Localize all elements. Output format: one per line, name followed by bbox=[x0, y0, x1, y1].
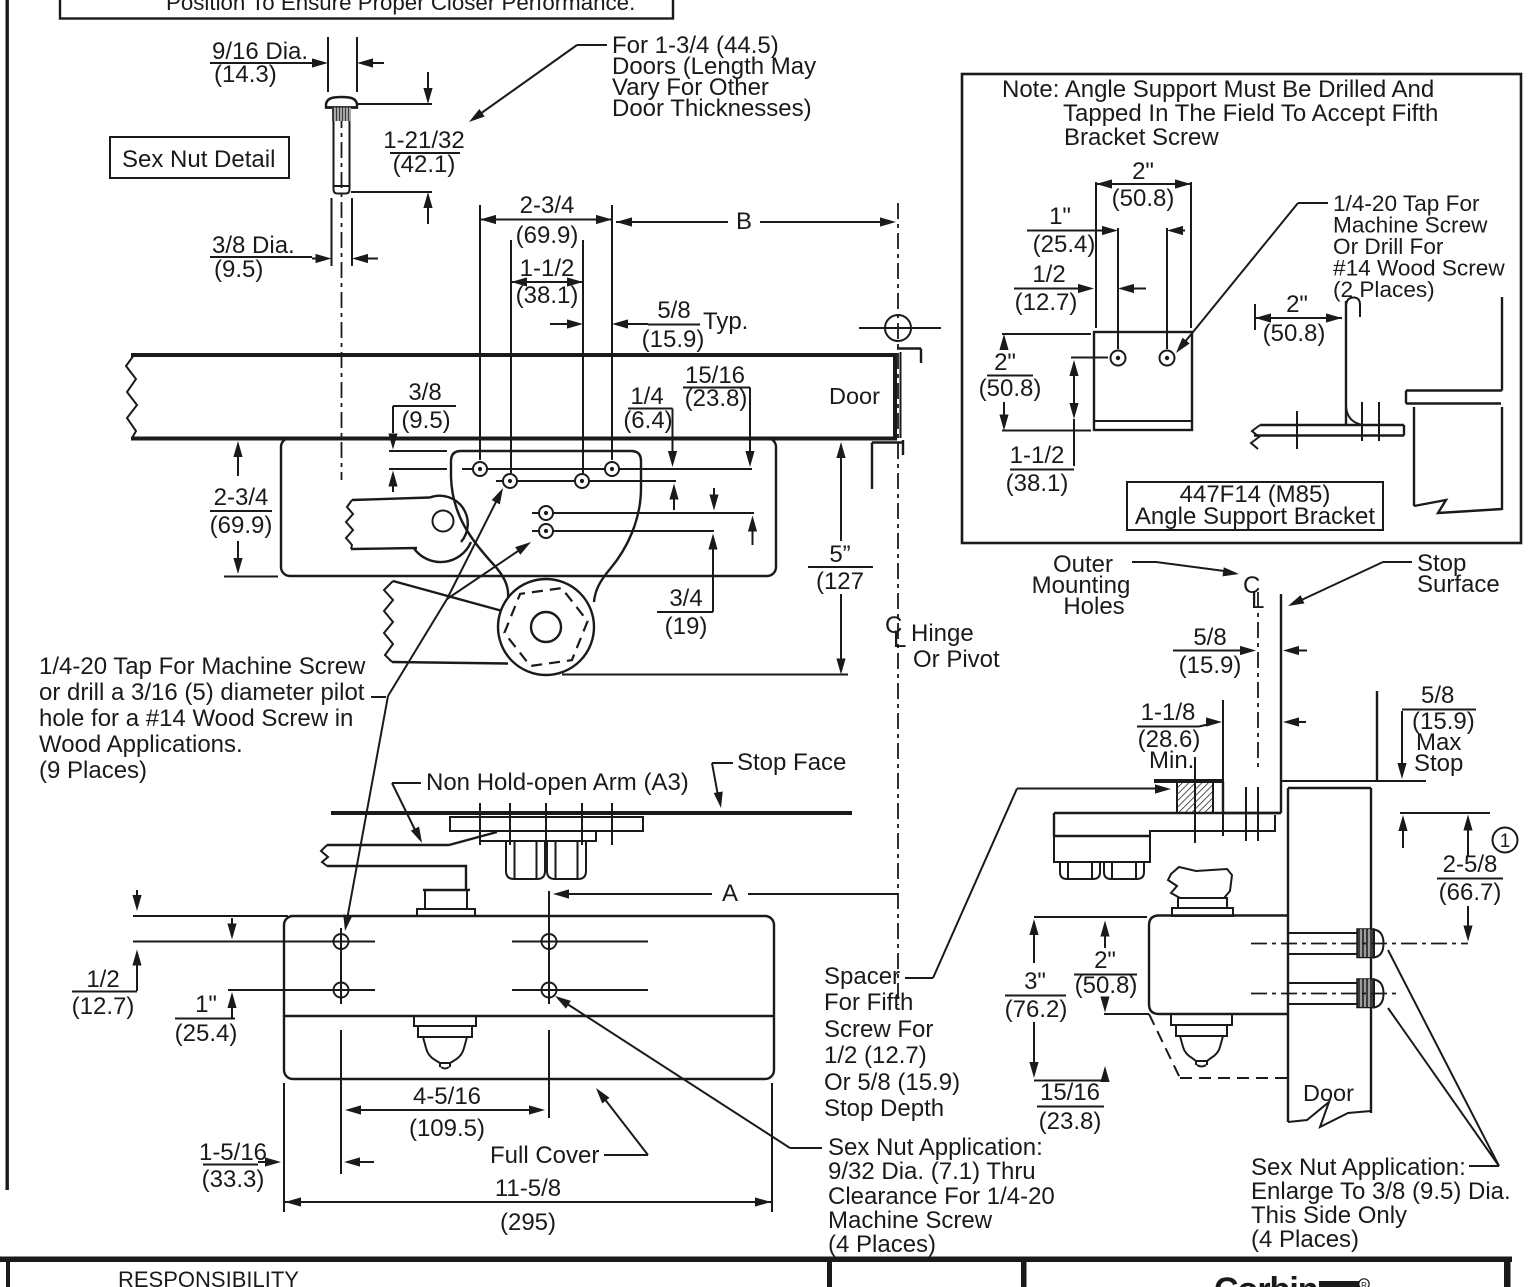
svg-text:L: L bbox=[1251, 587, 1264, 614]
svg-text:1/2: 1/2 bbox=[1032, 261, 1065, 288]
svg-text:2-3/4: 2-3/4 bbox=[520, 192, 575, 219]
svg-text:(42.1): (42.1) bbox=[393, 151, 456, 178]
svg-text:(12.7): (12.7) bbox=[1015, 289, 1078, 316]
hinge centerline bbox=[897, 203, 899, 1005]
svg-text:1-5/16: 1-5/16 bbox=[199, 1139, 267, 1166]
svg-text:hole for a #14 Wood Screw in: hole for a #14 Wood Screw in bbox=[39, 705, 353, 732]
callout 1/4-20 tap (2 places) bbox=[1172, 191, 1505, 356]
svg-text:(127: (127 bbox=[816, 568, 864, 595]
svg-text:(50.8): (50.8) bbox=[1263, 320, 1326, 347]
svg-text:1/2 (12.7): 1/2 (12.7) bbox=[824, 1042, 927, 1069]
sex nut centerline bbox=[341, 112, 343, 480]
dim 1/2 bbox=[1014, 261, 1146, 316]
svg-text:Spacer: Spacer bbox=[824, 963, 900, 990]
closer body (side) bbox=[1149, 916, 1288, 1015]
svg-text:3/4: 3/4 bbox=[669, 585, 702, 612]
stop surface label bbox=[1286, 550, 1500, 610]
svg-text:1-1/2: 1-1/2 bbox=[520, 255, 575, 282]
svg-text:Hinge: Hinge bbox=[911, 620, 974, 647]
svg-text:(23.8): (23.8) bbox=[685, 385, 748, 412]
dim 2 inch left vertical bbox=[979, 334, 1091, 431]
frame soffit right of stop bbox=[1281, 780, 1426, 782]
fifth screw tick marks bbox=[1245, 787, 1247, 841]
svg-text:(15.9): (15.9) bbox=[642, 326, 705, 353]
svg-text:Door Thicknesses): Door Thicknesses) bbox=[612, 95, 812, 122]
svg-text:(69.9): (69.9) bbox=[516, 222, 579, 249]
sex nut tip bbox=[334, 186, 350, 194]
hub hex (dashed) bbox=[504, 588, 587, 666]
svg-text:1": 1" bbox=[195, 991, 217, 1018]
dim 3/4 bbox=[657, 488, 719, 640]
svg-text:(9 Places): (9 Places) bbox=[39, 757, 147, 784]
svg-text:Stop: Stop bbox=[1414, 750, 1463, 777]
svg-text:(50.8): (50.8) bbox=[1075, 972, 1138, 999]
svg-text:(38.1): (38.1) bbox=[516, 282, 579, 309]
svg-text:Non Hold-open Arm (A3): Non Hold-open Arm (A3) bbox=[426, 769, 689, 796]
svg-text:Stop Face: Stop Face bbox=[737, 749, 846, 776]
dim 2 inch (side view) bbox=[1255, 291, 1342, 347]
pinion hub bbox=[498, 579, 594, 675]
svg-text:3/8: 3/8 bbox=[408, 379, 441, 406]
dim 4-5/16 bbox=[341, 1030, 549, 1174]
svg-text:(50.8): (50.8) bbox=[1112, 185, 1175, 212]
svg-text:Tapped In The Field To Accept: Tapped In The Field To Accept Fifth bbox=[1063, 100, 1438, 127]
sex nut detail label box bbox=[110, 137, 289, 178]
dim 1/4 bbox=[623, 383, 678, 510]
dim 9/16 Dia. bbox=[210, 37, 384, 92]
svg-text:(69.9): (69.9) bbox=[210, 512, 273, 539]
svg-text:(9.5): (9.5) bbox=[401, 407, 450, 434]
dim 1-1/2 bbox=[511, 240, 583, 473]
svg-text:Corbin: Corbin bbox=[1214, 1271, 1318, 1287]
svg-text:2": 2" bbox=[1286, 291, 1308, 318]
svg-text:(4 Places): (4 Places) bbox=[828, 1231, 936, 1258]
svg-text:1-1/2: 1-1/2 bbox=[1010, 442, 1065, 469]
bracket top edge extension (left) bbox=[389, 450, 447, 452]
cover top edge extension bbox=[133, 915, 288, 917]
arm bracket plate (side) bbox=[1054, 813, 1281, 836]
spacer centerline bbox=[1194, 757, 1196, 843]
svg-text:B: B bbox=[736, 208, 752, 235]
hidden cover outline (dashed) bbox=[1149, 1014, 1288, 1078]
top hook bbox=[1346, 298, 1360, 318]
svg-text:5/8: 5/8 bbox=[1421, 682, 1454, 709]
svg-text:2": 2" bbox=[994, 349, 1016, 376]
dim 2 inch bbox=[1074, 921, 1149, 1015]
svg-text:L: L bbox=[893, 626, 906, 653]
door (plan/edge view) bbox=[126, 353, 895, 441]
svg-text:Surface: Surface bbox=[1417, 571, 1500, 598]
bracket holes bbox=[1111, 351, 1126, 366]
dim 1-1/8 min bbox=[1137, 699, 1306, 836]
svg-text:Clearance For 1/4-20: Clearance For 1/4-20 bbox=[828, 1183, 1055, 1210]
full cover label bbox=[490, 1085, 648, 1169]
svg-text:5/8: 5/8 bbox=[657, 297, 690, 324]
svg-text:1": 1" bbox=[1049, 203, 1071, 230]
dim 3/8 (left, to bracket) bbox=[388, 379, 456, 492]
svg-text:Stop Depth: Stop Depth bbox=[824, 1095, 944, 1122]
svg-text:Screw For: Screw For bbox=[824, 1016, 933, 1043]
dim 5 inch (127 bbox=[562, 442, 873, 675]
sex nut application 9/32 note bbox=[828, 1134, 1055, 1258]
callout: For 1-3/4 doors bbox=[466, 32, 816, 126]
arm (plan, torn) bbox=[321, 832, 497, 916]
svg-text:Door: Door bbox=[1303, 1080, 1354, 1106]
drawing sheet left edge line bbox=[6, 0, 9, 1190]
stop face line bbox=[331, 811, 852, 815]
svg-text:Bracket Screw: Bracket Screw bbox=[1064, 124, 1219, 151]
svg-text:Sex Nut Detail: Sex Nut Detail bbox=[122, 146, 275, 173]
svg-text:(38.1): (38.1) bbox=[1006, 470, 1069, 497]
Corbin Russwin logo (cut off at bottom) bbox=[1214, 1271, 1369, 1287]
mounting plate (behind bracket) bbox=[281, 438, 776, 576]
svg-text:For Fifth: For Fifth bbox=[824, 989, 913, 1016]
dim 5/8 Typ. bbox=[550, 297, 748, 353]
svg-text:(9.5): (9.5) bbox=[214, 256, 263, 283]
svg-text:5/8: 5/8 bbox=[1193, 624, 1226, 651]
svg-text:R: R bbox=[1361, 1281, 1367, 1287]
svg-text:1-21/32: 1-21/32 bbox=[383, 127, 464, 154]
outer mounting holes label bbox=[1032, 551, 1240, 620]
dim 5/8 (to hinge cl) bbox=[1173, 624, 1307, 679]
dim 15/16 bbox=[683, 362, 757, 545]
svg-text:(25.4): (25.4) bbox=[1033, 231, 1096, 258]
447F14 label box bbox=[1127, 481, 1383, 530]
pinion under body (side) bbox=[1171, 1014, 1232, 1067]
dim 1-5/16 bbox=[199, 1139, 374, 1193]
frame jamb (right side) bbox=[1406, 297, 1502, 404]
sex nut knurl bbox=[332, 108, 351, 122]
dim 2-5/8 bbox=[1400, 813, 1503, 942]
svg-text:(33.3): (33.3) bbox=[202, 1166, 265, 1193]
svg-text:3": 3" bbox=[1024, 968, 1046, 995]
svg-text:(6.4): (6.4) bbox=[623, 407, 672, 434]
sex nut shaft bbox=[333, 121, 335, 186]
svg-text:Sex Nut Application:: Sex Nut Application: bbox=[828, 1134, 1043, 1161]
lower arm (torn) bbox=[384, 581, 508, 664]
main arm (upper, torn) bbox=[346, 496, 471, 562]
svg-text:2-3/4: 2-3/4 bbox=[214, 484, 269, 511]
pinion stack (side, top) bbox=[1178, 898, 1227, 908]
svg-text:Enlarge To 3/8 (9.5) Dia.: Enlarge To 3/8 (9.5) Dia. bbox=[1251, 1178, 1511, 1205]
svg-text:Door: Door bbox=[829, 383, 880, 409]
note box (top right) bbox=[962, 74, 1521, 543]
sex nut application enlarge note bbox=[1251, 950, 1511, 1253]
door section (in note box) bbox=[1414, 407, 1502, 513]
closer bracket body bbox=[451, 451, 641, 602]
svg-text:Machine Screw: Machine Screw bbox=[828, 1207, 993, 1234]
leader fork from 9-places note bbox=[340, 486, 533, 932]
arm pin bbox=[433, 511, 454, 532]
svg-text:(295): (295) bbox=[500, 1209, 556, 1236]
circled 1 bbox=[1493, 828, 1518, 853]
frame stop (right of door) bbox=[872, 349, 921, 490]
dim 1-1/2 bbox=[1006, 358, 1108, 498]
svg-text:11-5/8: 11-5/8 bbox=[495, 1175, 561, 1202]
dim 1 inch (25.4) bbox=[175, 918, 238, 1047]
cover pinion bbox=[414, 1016, 476, 1069]
sex bolt lower bbox=[1251, 979, 1398, 1008]
svg-text:A: A bbox=[722, 880, 738, 907]
dim 2-3/4 vertical (left) bbox=[210, 441, 278, 577]
svg-text:Typ.: Typ. bbox=[703, 308, 748, 335]
cover mounting holes bbox=[133, 891, 648, 1004]
arm slide track bbox=[450, 803, 643, 845]
flat bracket plate bbox=[1094, 332, 1192, 430]
svg-text:(19): (19) bbox=[665, 613, 708, 640]
shoe nuts bbox=[1060, 862, 1144, 879]
svg-text:Sex Nut Application:: Sex Nut Application: bbox=[1251, 1154, 1466, 1181]
dim 2-3/4 horizontal bbox=[480, 192, 612, 460]
svg-text:2-5/8: 2-5/8 bbox=[1443, 851, 1498, 878]
svg-text:(15.9): (15.9) bbox=[1179, 652, 1242, 679]
svg-text:This Side Only: This Side Only bbox=[1251, 1202, 1407, 1229]
dim 1-21/32 bbox=[351, 72, 465, 224]
svg-text:Angle Support Bracket: Angle Support Bracket bbox=[1135, 503, 1375, 530]
dim A bbox=[553, 880, 898, 907]
svg-text:(66.7): (66.7) bbox=[1439, 879, 1502, 906]
dim 1/2 (12.7) bbox=[72, 890, 142, 1020]
sex nut head bbox=[326, 97, 357, 108]
svg-text:Full Cover: Full Cover bbox=[490, 1142, 599, 1169]
svg-text:2": 2" bbox=[1094, 947, 1116, 974]
dim B bbox=[616, 208, 896, 235]
dim 2 inch top bbox=[1096, 158, 1191, 328]
title block bottom bbox=[0, 1257, 1512, 1287]
sex bolt upper bbox=[1251, 929, 1468, 958]
svg-text:3/8 Dia.: 3/8 Dia. bbox=[212, 232, 295, 259]
full cover body bbox=[284, 916, 774, 1079]
torn arm end (side) bbox=[1168, 867, 1232, 898]
hinge centerline (detail) bbox=[1257, 592, 1259, 768]
dim 3/8 Dia. bbox=[210, 198, 378, 283]
soffit notch bbox=[1223, 781, 1281, 813]
hinge or pivot label bbox=[885, 612, 1000, 673]
callout 1/4-20 tap 9 places bbox=[39, 653, 366, 784]
dim 15/16 bbox=[1037, 1066, 1110, 1135]
svg-text:RESPONSIBILITY: RESPONSIBILITY bbox=[118, 1267, 299, 1287]
svg-text:(12.7): (12.7) bbox=[72, 993, 135, 1020]
dim 11-5/8 (295) bbox=[284, 1083, 772, 1236]
bracket holes bbox=[473, 462, 619, 538]
svg-text:Holes: Holes bbox=[1063, 593, 1124, 620]
svg-text:Note: Angle Support Must Be Dr: Note: Angle Support Must Be Drilled And bbox=[1002, 76, 1434, 103]
frame soffit bbox=[1154, 779, 1223, 783]
svg-text:2": 2" bbox=[1132, 158, 1154, 185]
svg-text:15/16: 15/16 bbox=[1040, 1079, 1100, 1106]
hub center hole bbox=[531, 612, 561, 642]
angle bracket side view bbox=[1251, 298, 1404, 450]
spacer note bbox=[824, 784, 1171, 1122]
spacer (hatched) bbox=[1177, 781, 1213, 813]
svg-text:(25.4): (25.4) bbox=[175, 1020, 238, 1047]
svg-text:5”: 5” bbox=[829, 541, 850, 568]
dim 1 inch bbox=[1027, 203, 1185, 258]
svg-text:1: 1 bbox=[1500, 831, 1511, 852]
svg-text:(4 Places): (4 Places) bbox=[1251, 1226, 1359, 1253]
svg-text:Position To Ensure Proper Clos: Position To Ensure Proper Closer Perform… bbox=[166, 0, 635, 15]
non hold-open arm label bbox=[392, 769, 689, 845]
dim 5/8 max stop bbox=[1384, 682, 1476, 848]
horizontal leg bbox=[1260, 424, 1404, 426]
svg-text:(50.8): (50.8) bbox=[979, 375, 1042, 402]
stop surface vertical bbox=[1280, 594, 1282, 813]
svg-text:1/4: 1/4 bbox=[630, 383, 663, 410]
svg-text:9/32 Dia. (7.1) Thru: 9/32 Dia. (7.1) Thru bbox=[828, 1158, 1036, 1185]
hole centerlines up bbox=[1117, 228, 1119, 349]
svg-text:or drill a 3/16 (5) diameter p: or drill a 3/16 (5) diameter pilot bbox=[39, 679, 365, 706]
centerline symbol bbox=[1243, 572, 1264, 614]
svg-text:4-5/16: 4-5/16 bbox=[413, 1083, 481, 1110]
svg-text:(23.8): (23.8) bbox=[1039, 1108, 1102, 1135]
svg-text:1/4-20 Tap For Machine Screw: 1/4-20 Tap For Machine Screw bbox=[39, 653, 366, 680]
arm shoe body (side) bbox=[1054, 836, 1150, 862]
bracket screw holes row lines bbox=[389, 468, 447, 470]
svg-text:1-1/8: 1-1/8 bbox=[1141, 699, 1196, 726]
note text bbox=[1002, 76, 1438, 151]
svg-text:Or Pivot: Or Pivot bbox=[913, 646, 1000, 673]
screw tick marks bbox=[1296, 411, 1298, 449]
dim 3 inch bbox=[1005, 917, 1147, 1081]
svg-text:Wood Applications.: Wood Applications. bbox=[39, 731, 243, 758]
svg-text:Or 5/8 (15.9): Or 5/8 (15.9) bbox=[824, 1069, 960, 1096]
stop face label bbox=[712, 749, 846, 809]
top caption box (cut off at top) bbox=[60, 0, 673, 19]
svg-text:1/2: 1/2 bbox=[86, 966, 119, 993]
vertical leg bbox=[1345, 301, 1347, 425]
hinge/pivot point bbox=[859, 315, 941, 341]
svg-text:(109.5): (109.5) bbox=[409, 1115, 485, 1142]
rod housing bbox=[480, 831, 596, 841]
svg-text:Min.: Min. bbox=[1149, 747, 1194, 774]
hex nuts under housing bbox=[506, 841, 586, 879]
svg-text:(14.3): (14.3) bbox=[214, 61, 277, 88]
svg-text:(76.2): (76.2) bbox=[1005, 996, 1068, 1023]
door stop face bbox=[1376, 691, 1378, 781]
door (side section) bbox=[1288, 788, 1371, 1127]
leader from cover hole to 9/32 note bbox=[552, 992, 822, 1148]
